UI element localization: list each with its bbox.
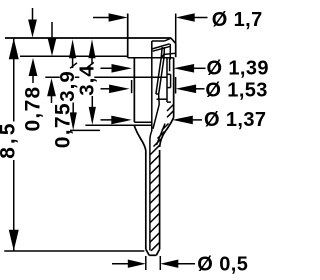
right cone outer profile bbox=[160, 118, 174, 148]
svg-text:Ø 1,7: Ø 1,7 bbox=[212, 9, 263, 31]
dimension line 8,5 bbox=[13, 38, 15, 251]
dimension arrow 0,75 upper bbox=[51, 22, 53, 41]
leaf foot connector bbox=[158, 94, 161, 105]
wall hatch stroke 2 bbox=[167, 111, 174, 118]
inner cone line bbox=[157, 124, 166, 146]
dimension arrow 3,9 upper bbox=[69, 39, 76, 58]
socket flange left edge + extension bbox=[127, 14, 129, 58]
dimension arrow 3,4 upper bbox=[88, 39, 95, 58]
dimension Ø1,37 left arrow bbox=[101, 119, 118, 121]
pin right edge bbox=[159, 150, 161, 249]
extension line Ø0,5 right bbox=[159, 256, 161, 270]
reference line flange bottom bbox=[20, 55, 128, 57]
dimension arrow 3,9 lower bbox=[72, 99, 74, 114]
funnel cone upper bbox=[152, 44, 170, 49]
pin tip chamfer right bbox=[156, 249, 159, 255]
funnel vertical bbox=[151, 41, 153, 49]
svg-text:Ø 0,5: Ø 0,5 bbox=[197, 254, 248, 276]
extension line Ø0,5 left bbox=[145, 256, 147, 270]
dimension arrow 3,4 lower bbox=[91, 95, 93, 109]
bore right wall bbox=[166, 58, 168, 102]
label 3,4 bbox=[79, 65, 94, 97]
dimension arrow 8,5 bottom bbox=[9, 230, 19, 251]
extension line Ø1,53 left bbox=[131, 80, 133, 93]
funnel cone lower bbox=[153, 46, 171, 51]
dimension Ø1,53 left arrow bbox=[101, 88, 115, 90]
dimension Ø1,37 right arrow bbox=[172, 116, 193, 125]
dimension arrow 8,5 top bbox=[9, 38, 19, 59]
socket flange bottom right bbox=[162, 53, 176, 58]
svg-text:8,5: 8,5 bbox=[0, 121, 20, 159]
pin left edge bbox=[145, 151, 147, 250]
svg-text:Ø 1,39: Ø 1,39 bbox=[207, 58, 269, 80]
pin tip bottom bbox=[149, 254, 156, 256]
pin tip chamfer left bbox=[146, 249, 149, 255]
label 0,78 bbox=[27, 85, 41, 132]
extension line Ø1,7 right bbox=[175, 14, 177, 44]
funnel top line bbox=[152, 40, 165, 42]
funnel inner right vertical bbox=[169, 44, 171, 60]
section centerline / bore wall bbox=[151, 41, 153, 131]
spring bump outer bbox=[170, 74, 172, 87]
socket flange chamfer top right bbox=[171, 38, 176, 44]
svg-text:0,75: 0,75 bbox=[52, 102, 75, 148]
socket body right edge bbox=[173, 58, 175, 118]
bore bottom curve bbox=[150, 131, 152, 140]
reference line 3,4 level (crimp) bbox=[85, 124, 151, 126]
extension line Ø1,53 right bbox=[175, 77, 177, 94]
contact spring leaf neck bbox=[161, 47, 162, 58]
dimension Ø1,39 left arrow bbox=[101, 67, 118, 69]
bore taper line bbox=[153, 105, 159, 129]
left cone outer profile bbox=[134, 126, 145, 151]
reference line bottom (pin end plane) bbox=[4, 250, 144, 252]
reference line body top bbox=[128, 57, 174, 59]
pin hatch bbox=[150, 124, 169, 251]
svg-text:Ø 1,37: Ø 1,37 bbox=[204, 109, 266, 131]
reference line top (flange top plane) bbox=[5, 37, 171, 39]
contact spring leaf left line bbox=[156, 58, 161, 94]
funnel top chamfer bbox=[165, 38, 171, 41]
wall hatch stroke 1 bbox=[167, 104, 174, 111]
contact spring foot bbox=[156, 93, 159, 95]
contact spring leaf right line bbox=[159, 58, 164, 94]
oblique tick 3,4 bbox=[87, 62, 94, 68]
bore wall bottom tick bbox=[167, 101, 171, 103]
dimension Ø1,39 right arrow bbox=[174, 64, 195, 73]
spring cage bottom tick bbox=[157, 98, 167, 100]
socket body left edge bbox=[133, 58, 135, 123]
reference tick 3,9 level bbox=[66, 129, 100, 131]
dimension arrow 0,75 lower bbox=[47, 78, 56, 96]
dimension Ø1,53 right arrow bbox=[176, 85, 197, 94]
svg-text:0,78: 0,78 bbox=[22, 85, 45, 131]
svg-text:Ø 1,53: Ø 1,53 bbox=[205, 79, 267, 101]
socket flange right edge bbox=[175, 44, 177, 58]
svg-text:3,4: 3,4 bbox=[75, 64, 98, 96]
dimension Ø1,7 left arrow bbox=[93, 17, 112, 19]
dimension arrow 0,78 upper bbox=[32, 8, 34, 24]
label 8,5 bbox=[1, 122, 16, 161]
label 3,9 bbox=[60, 70, 75, 103]
dimension arrow 0,78 lower bbox=[29, 58, 38, 76]
reference line 0,75 level bbox=[45, 76, 167, 78]
dimension Ø1,7 right arrow bbox=[176, 13, 195, 21]
dimension Ø0,5 right arrow bbox=[160, 260, 178, 268]
dimension Ø0,5 left arrow bbox=[112, 263, 129, 265]
window edge vertical bbox=[169, 58, 171, 72]
label 0,75 bbox=[56, 103, 70, 149]
oblique tick 3,9 bbox=[70, 63, 77, 69]
pin section boundary bbox=[149, 140, 151, 251]
reference line crimp upper bbox=[134, 121, 151, 123]
